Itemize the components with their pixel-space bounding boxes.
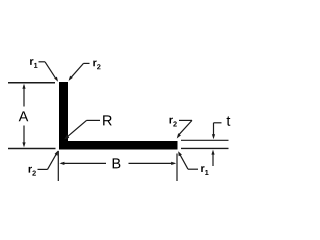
leader R diagonal — [67, 120, 86, 136]
arrowhead B right — [171, 162, 176, 165]
dimension label B — [113, 158, 121, 168]
arrowhead A up — [22, 84, 25, 89]
radius label r2 leg-end — [170, 118, 177, 127]
radius label r1 leg-end — [201, 166, 208, 175]
leader r2 heel diagonal — [48, 153, 57, 169]
leader r1 top-left diagonal — [45, 62, 56, 79]
leader r2 top-right horizontal — [84, 62, 90, 64]
dimension line A lower segment — [23, 126, 25, 146]
arrowhead B left — [59, 162, 64, 165]
extension line t top — [181, 139, 229, 141]
arrowhead R — [64, 134, 69, 139]
dimension label R — [103, 115, 112, 125]
arrowhead r2 heel — [55, 150, 59, 155]
radius label r2 top-right — [93, 60, 100, 69]
leader r1 leg-end horizontal — [188, 168, 198, 170]
radius label r1 top-left — [30, 59, 37, 68]
arrowhead t up — [211, 150, 214, 155]
leader t horizontal — [214, 122, 222, 124]
radius label r2 heel — [29, 167, 36, 176]
dimension line B right segment — [129, 162, 175, 164]
dimension label A — [19, 111, 29, 121]
arrowhead r1 top-left — [54, 77, 58, 82]
angle cross-section (L shape) — [59, 82, 178, 150]
dimension label t — [227, 116, 231, 125]
leader r2 leg-end diagonal — [179, 120, 192, 134]
extension line B left — [57, 151, 59, 181]
leader r1 top-left horizontal — [39, 61, 46, 63]
extension line t bottom — [181, 147, 229, 149]
extension line A top — [8, 82, 55, 84]
arrowhead r2 top-right — [69, 76, 73, 81]
arrowhead t down — [212, 134, 215, 139]
dimension line B left segment — [61, 162, 106, 164]
arrowhead r1 leg-end — [178, 151, 182, 156]
leader r2 heel horizontal — [38, 168, 48, 170]
dimension line A upper segment — [23, 86, 25, 107]
leader r2 top-right diagonal — [71, 63, 84, 77]
leader R horizontal — [87, 119, 101, 121]
extension line A bottom — [8, 148, 56, 150]
extension line B right — [176, 154, 178, 182]
t lower pointer line — [212, 154, 214, 166]
leader t vertical — [213, 123, 215, 135]
arrowhead r2 leg-end — [177, 133, 181, 138]
leader r1 leg-end diagonal — [180, 154, 188, 169]
arrowhead A down — [22, 142, 25, 147]
leader r2 leg-end horizontal — [179, 119, 192, 121]
